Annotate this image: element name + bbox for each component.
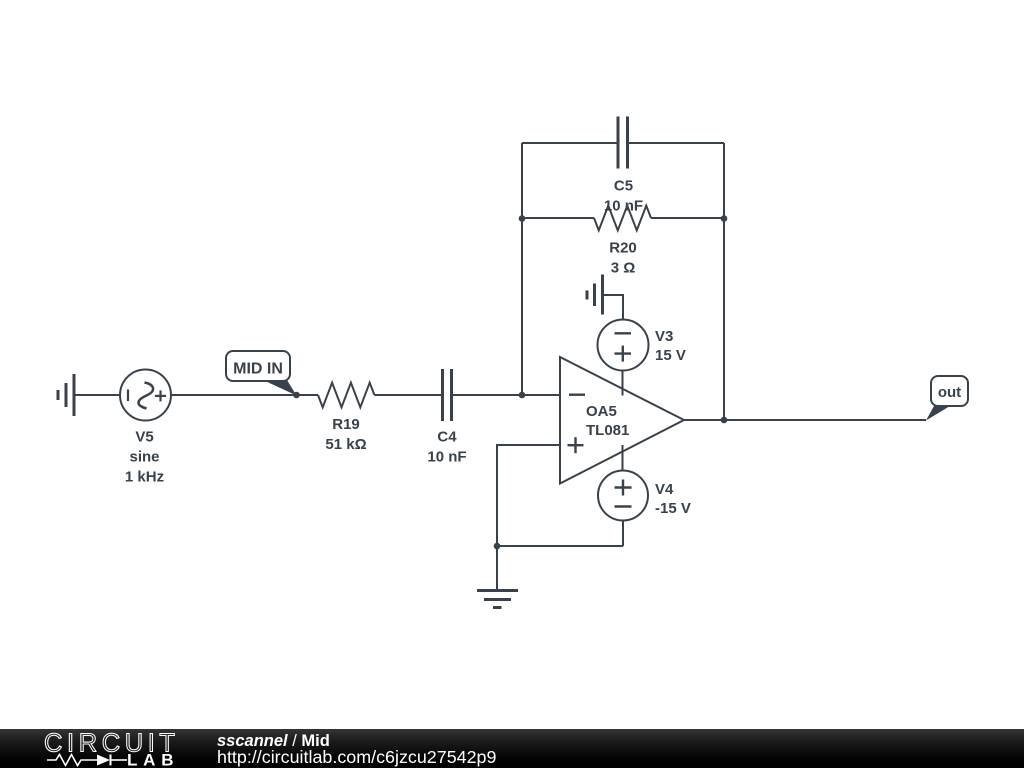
svg-text:sine: sine: [129, 449, 159, 466]
node dot right R20: [721, 215, 728, 222]
node dot output feedback: [721, 417, 728, 424]
wire R19 to C4: [374, 394, 441, 396]
footer title text: [217, 733, 330, 750]
wire C4 to op-amp inverting input: [453, 394, 560, 396]
wire ground net horizontal: [497, 545, 623, 547]
wire V5 to R19: [171, 394, 318, 396]
footer url text: [217, 749, 496, 767]
svg-text:51 kΩ: 51 kΩ: [325, 436, 366, 453]
voltage source V4: [598, 471, 648, 521]
svg-text:10 nF: 10 nF: [427, 449, 466, 466]
voltage source V3: [598, 320, 649, 371]
op-amp OA5 triangle: [560, 357, 684, 484]
wire feedback right vertical: [723, 143, 725, 420]
svg-text:V3: V3: [655, 328, 673, 345]
op-amp positive supply pin: [622, 370, 624, 396]
svg-text:V5: V5: [135, 429, 153, 446]
svg-text:R20: R20: [609, 240, 637, 257]
op-amp minus input symbol: [569, 394, 585, 396]
svg-text:C5: C5: [614, 178, 633, 195]
ground (bottom): [477, 591, 518, 608]
capacitor C5: [618, 117, 628, 169]
op-amp negative supply pin: [622, 445, 624, 471]
svg-text:TL081: TL081: [586, 422, 629, 439]
svg-text:out: out: [938, 384, 961, 401]
node dot left R20: [519, 215, 526, 222]
wire C5 top right: [629, 142, 724, 144]
op-amp plus input symbol: [568, 437, 584, 453]
resistor R19: [318, 383, 374, 408]
node dot ground net: [494, 543, 501, 550]
wire R20 right: [651, 217, 724, 219]
svg-text:LAB: LAB: [127, 751, 179, 768]
svg-text:C4: C4: [437, 429, 457, 446]
svg-text:-15 V: -15 V: [655, 500, 691, 517]
svg-text:V4: V4: [655, 481, 674, 498]
ground (left of V5): [58, 374, 74, 416]
svg-text:10 nF: 10 nF: [604, 198, 643, 215]
wire V4 bottom pin: [622, 521, 624, 547]
voltage source V5 (sine): [120, 370, 171, 421]
wire V3 top pin: [603, 295, 623, 320]
svg-text:3 Ω: 3 Ω: [611, 260, 636, 277]
svg-text:R19: R19: [332, 416, 360, 433]
resistor R20: [594, 206, 651, 231]
svg-text:OA5: OA5: [586, 403, 617, 420]
ground (above V3): [587, 275, 603, 315]
wire noninverting input to ground net: [497, 445, 560, 546]
wire ground to V5: [74, 394, 120, 396]
svg-text:MID IN: MID IN: [233, 361, 283, 378]
svg-text:15 V: 15 V: [655, 347, 686, 364]
wire op-amp output: [684, 419, 926, 421]
svg-text:1 kHz: 1 kHz: [125, 469, 164, 486]
CircuitLab logo: [0, 729, 220, 768]
node feedback tap dot: [519, 392, 526, 399]
flag out: [926, 376, 968, 421]
wire feedback left vertical: [521, 143, 523, 395]
flag MID IN: [226, 351, 297, 396]
wire R20 left: [522, 217, 594, 219]
capacitor C4: [443, 369, 452, 421]
node MID IN junction dot: [293, 392, 300, 399]
wire down to ground: [496, 546, 498, 589]
wire C5 top left: [522, 142, 617, 144]
